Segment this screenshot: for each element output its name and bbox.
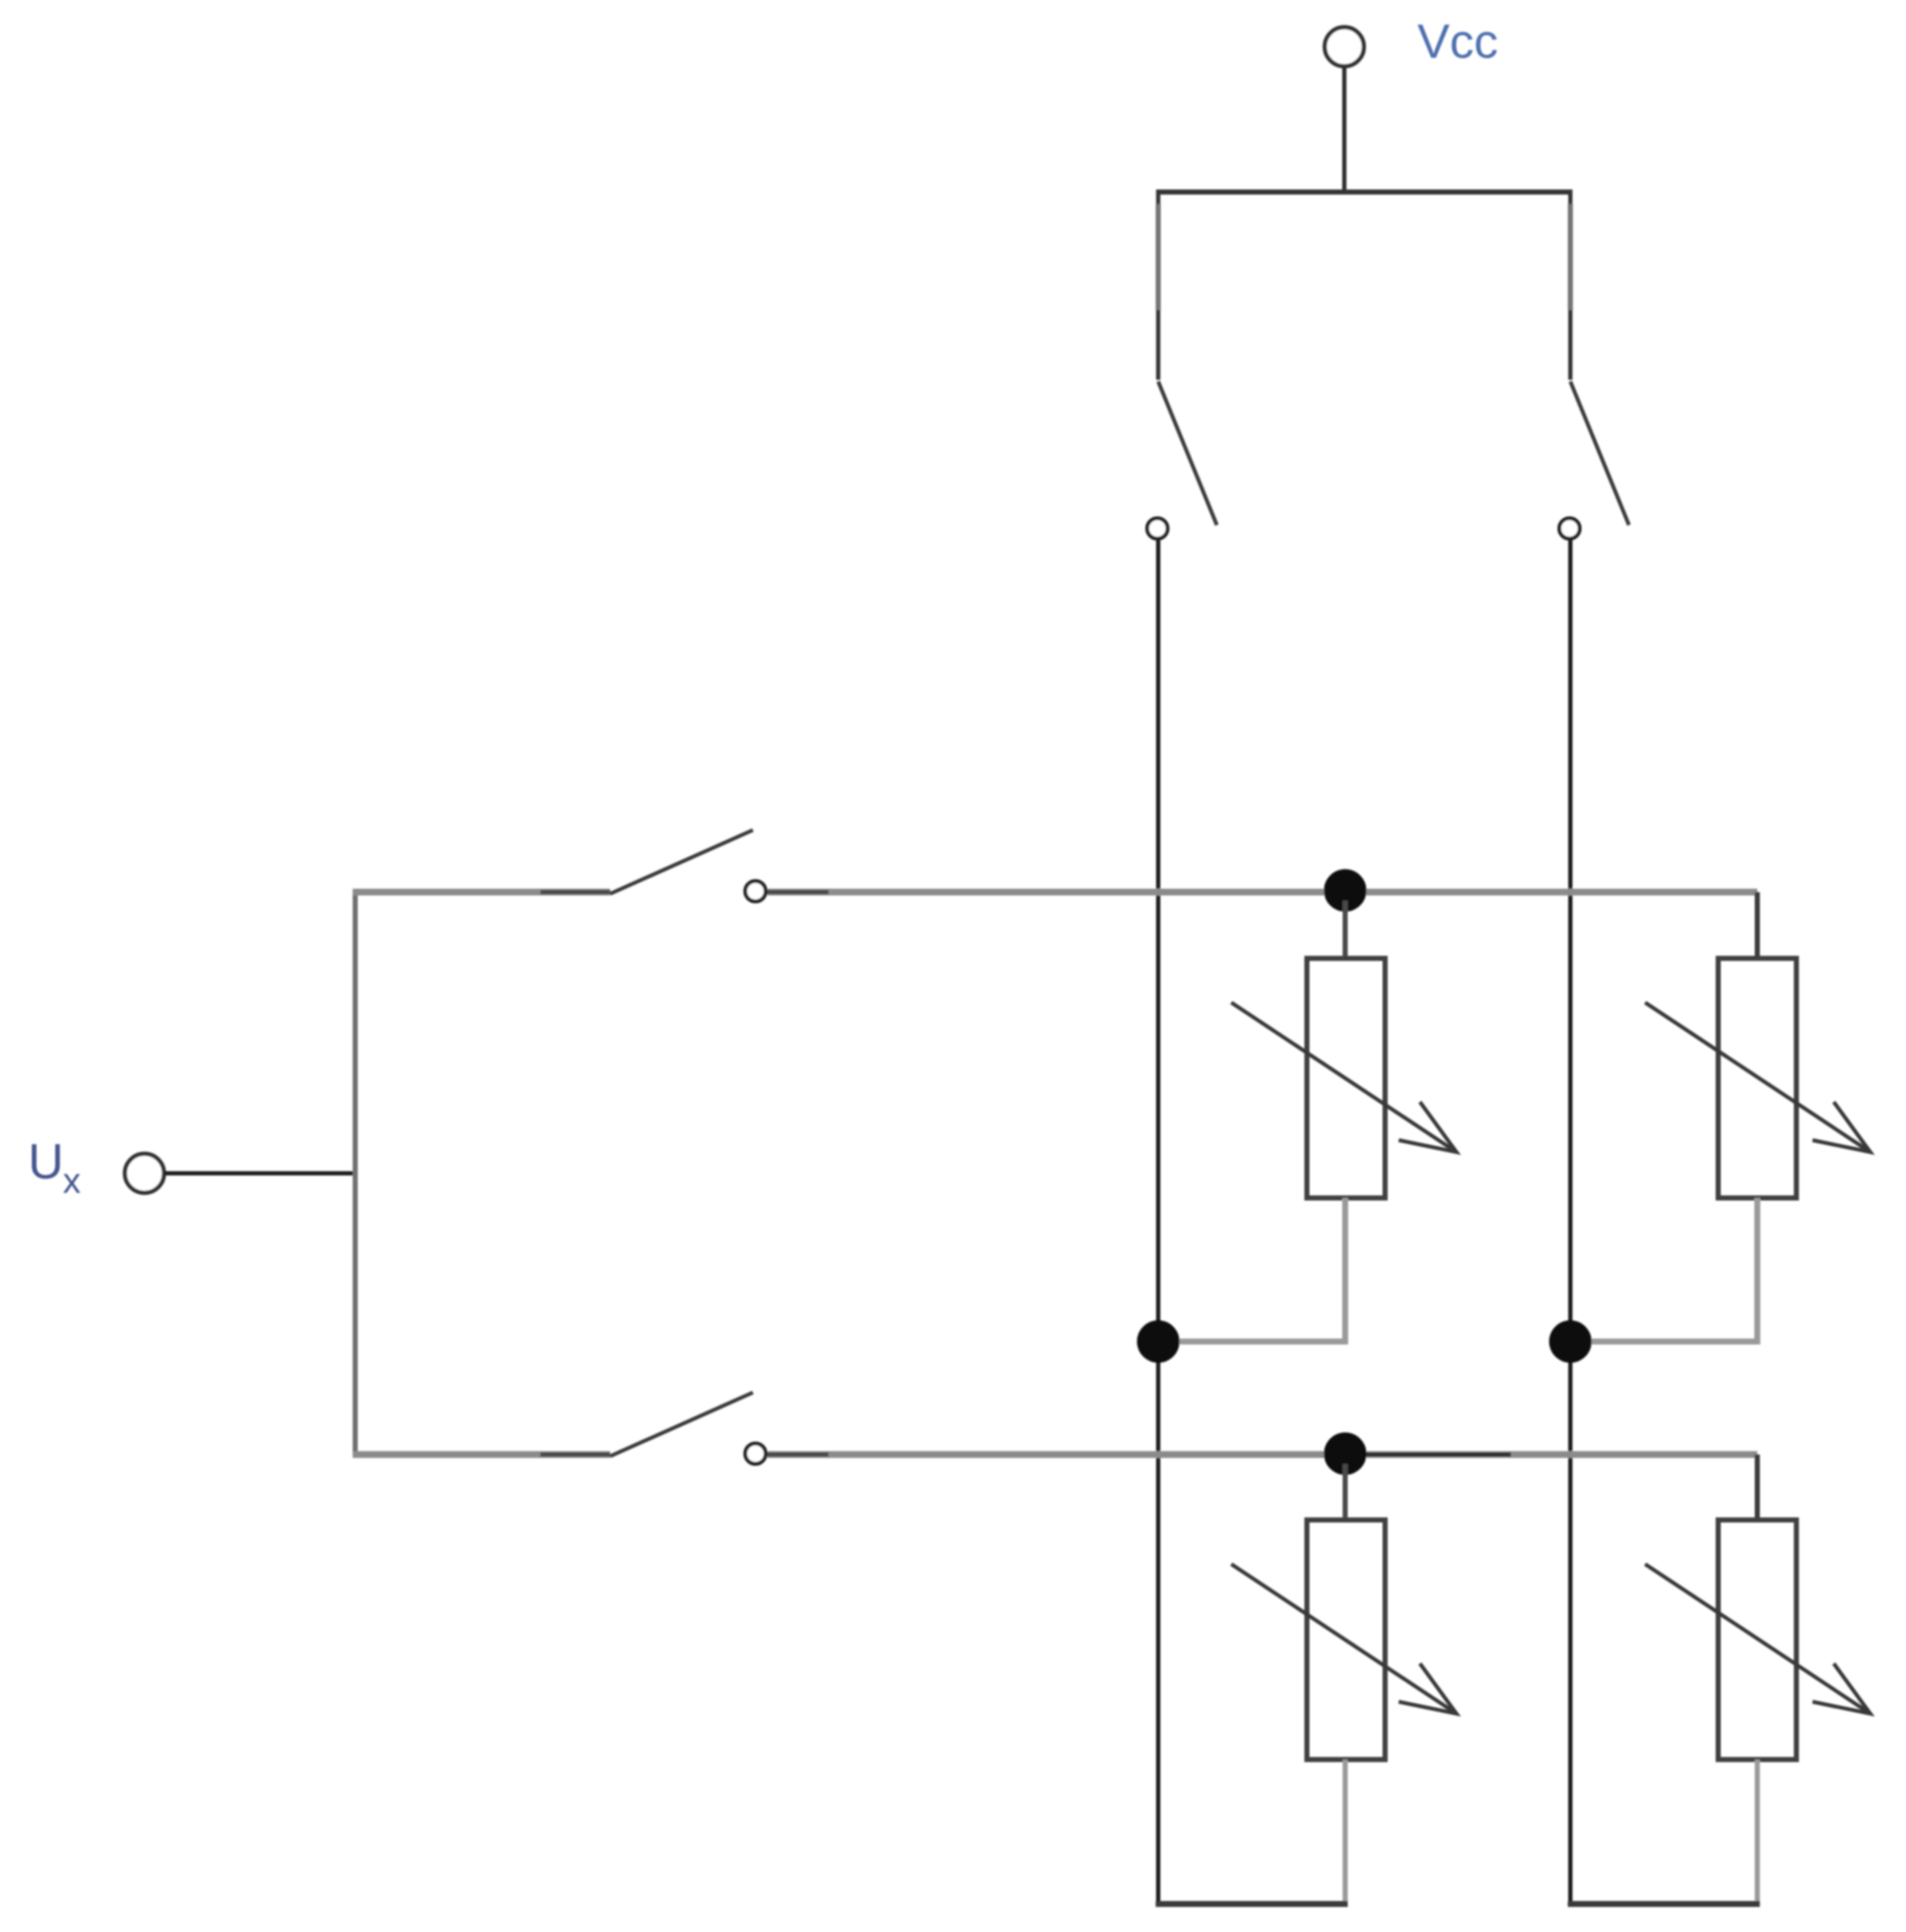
switch S3 blade	[610, 830, 753, 894]
resistor R4 arrow	[1645, 1564, 1870, 1714]
resistor R4	[1718, 1520, 1796, 1760]
switch S4 wire dark end	[540, 1453, 610, 1457]
wire R1 bottom jog	[1158, 1198, 1345, 1342]
wire lower bridge bus dark segment left	[767, 1453, 829, 1457]
wire R1 stub	[1343, 901, 1348, 960]
terminal Vcc	[1325, 27, 1364, 66]
wire left column	[1157, 540, 1161, 1907]
svg-text:Vcc: Vcc	[1417, 14, 1498, 69]
svg-text:x: x	[63, 1161, 81, 1200]
node C	[1549, 1320, 1592, 1363]
wire R3 stub	[1343, 1464, 1348, 1522]
switch S2 contact	[1559, 518, 1580, 539]
resistor R1 arrow	[1231, 1003, 1456, 1152]
wire right column drop	[1569, 189, 1573, 380]
switch S4 wire	[353, 1451, 610, 1458]
wire Ux lead	[165, 1172, 357, 1176]
wire R4 bottom	[1755, 1760, 1760, 1907]
switch S4 contact	[745, 1443, 766, 1464]
resistor R1	[1307, 958, 1385, 1198]
node B	[1137, 1320, 1179, 1363]
wire lower bridge bus dark segment right	[1366, 1453, 1511, 1457]
wire Ux branch vertical	[353, 890, 358, 1457]
wire R2 bottom jog	[1570, 1198, 1757, 1342]
wire upper bridge bus	[767, 889, 1757, 895]
wire lower bridge bus	[767, 1451, 1757, 1458]
wire R4 top drop	[1755, 1455, 1760, 1522]
wire Vcc stem	[1343, 67, 1347, 192]
wire top bus	[1158, 189, 1570, 195]
switch S1 contact	[1147, 518, 1168, 539]
wire R2 top drop	[1755, 892, 1760, 960]
terminal Ux	[125, 1154, 164, 1193]
node D	[1324, 1432, 1366, 1475]
wire right column	[1569, 540, 1573, 1907]
switch S3 contact	[745, 881, 766, 901]
switch S1 blade	[1158, 381, 1217, 525]
wire upper bridge bus dark segment	[767, 890, 829, 895]
svg-text:U: U	[28, 1134, 64, 1189]
switch S3 wire dark end	[540, 890, 610, 895]
wire bottom-right loop	[1568, 1901, 1760, 1907]
wire bottom-left loop	[1156, 1901, 1348, 1907]
resistor R2 arrow	[1645, 1003, 1870, 1152]
switch S2 blade	[1570, 381, 1629, 525]
resistor R2	[1718, 958, 1796, 1198]
wire R3 bottom	[1343, 1760, 1348, 1907]
wire left column drop	[1157, 189, 1161, 380]
resistor R3	[1307, 1520, 1385, 1760]
switch S4 blade	[610, 1393, 753, 1456]
node A	[1324, 869, 1366, 912]
switch S3 wire	[353, 889, 610, 895]
resistor R3 arrow	[1231, 1564, 1456, 1714]
